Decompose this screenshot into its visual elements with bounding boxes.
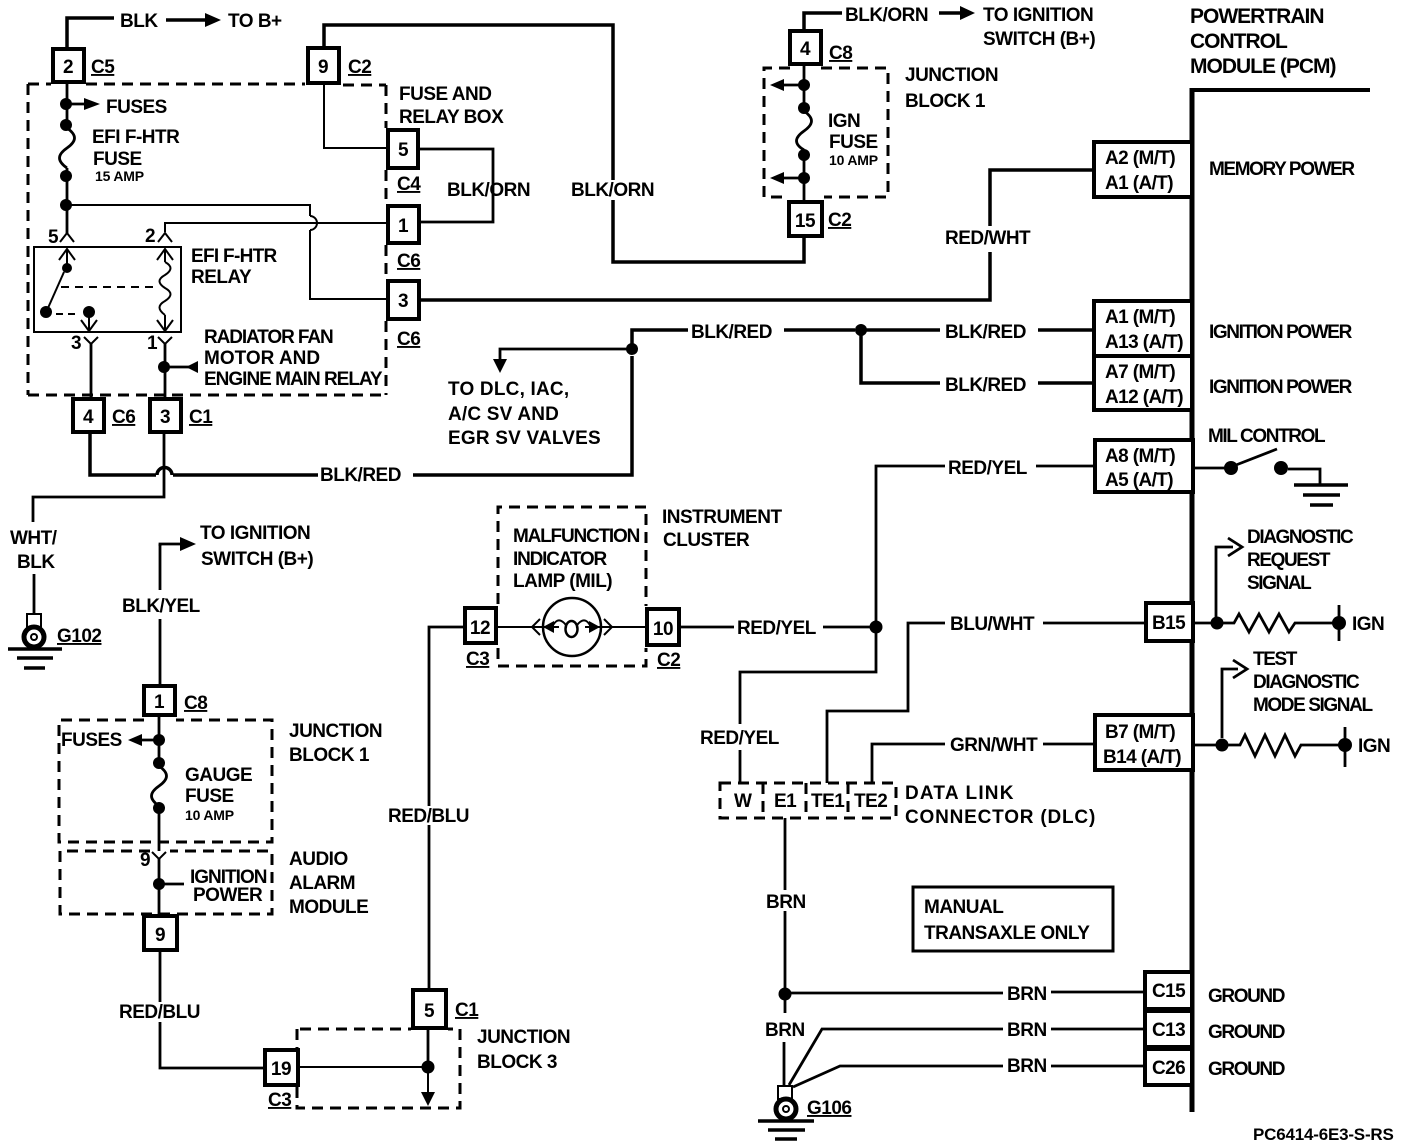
wire BLU/WHT from TE1 to PCM B15	[827, 614, 1146, 783]
svg-text:MODULE: MODULE	[289, 897, 368, 918]
wire BLK/RED to PCM ignition power A7/A12	[861, 330, 1094, 396]
connector 4 (C8)	[790, 31, 852, 64]
svg-text:BLK/RED: BLK/RED	[691, 322, 772, 343]
wire RED/YEL to PCM A8 MIL control	[876, 458, 1095, 627]
wire from fuse junction to connector 3 of fuse/relay box (with hop)	[66, 205, 386, 299]
svg-text:MIL CONTROL: MIL CONTROL	[1208, 426, 1326, 447]
svg-text:IGN: IGN	[1358, 736, 1390, 757]
fuse and relay box (dashed outline)	[28, 84, 504, 395]
svg-text:15: 15	[795, 211, 816, 232]
svg-text:MALFUNCTION: MALFUNCTION	[513, 526, 640, 547]
svg-text:RED/YEL: RED/YEL	[948, 458, 1028, 479]
svg-text:BLOCK 1: BLOCK 1	[289, 745, 370, 766]
svg-text:JUNCTION: JUNCTION	[289, 721, 382, 742]
wire from connector 2 to fuse	[66, 82, 69, 128]
connector 10 (C2)	[647, 609, 680, 671]
fuse: IGN FUSE 10 AMP	[770, 64, 878, 202]
wire BRN from ground to PCM C26	[793, 1056, 1145, 1087]
svg-text:INSTRUMENT: INSTRUMENT	[662, 507, 782, 528]
svg-text:BLK: BLK	[120, 11, 158, 32]
svg-text:DATA LINK: DATA LINK	[905, 783, 1015, 804]
relay pin 3	[71, 333, 98, 398]
svg-text:3: 3	[398, 291, 408, 312]
svg-text:BRN: BRN	[1007, 984, 1047, 1005]
svg-text:G106: G106	[807, 1098, 851, 1119]
svg-text:C15: C15	[1152, 981, 1186, 1002]
svg-text:5: 5	[424, 1001, 435, 1022]
connector 1 (C8)	[144, 686, 207, 715]
svg-text:LAMP (MIL): LAMP (MIL)	[513, 571, 612, 592]
connector 9 (C2)	[308, 48, 371, 83]
svg-text:EGR SV VALVES: EGR SV VALVES	[448, 428, 601, 449]
svg-text:CONTROL: CONTROL	[1190, 30, 1288, 53]
svg-text:1: 1	[154, 692, 165, 713]
svg-text:C8: C8	[184, 693, 207, 714]
svg-text:9: 9	[140, 850, 150, 871]
wire BLK/RED to PCM ignition power A1/A13	[632, 322, 1094, 349]
svg-text:C2: C2	[657, 650, 680, 671]
relay pin 5	[48, 227, 74, 248]
svg-text:G102: G102	[57, 626, 101, 647]
svg-text:BLK/ORN: BLK/ORN	[845, 5, 928, 26]
svg-text:FUSE AND: FUSE AND	[399, 84, 491, 105]
svg-text:A13 (A/T): A13 (A/T)	[1105, 332, 1183, 353]
MIL control switch and ground	[1193, 449, 1348, 505]
svg-text:10: 10	[653, 619, 673, 640]
svg-text:ENGINE MAIN RELAY: ENGINE MAIN RELAY	[204, 369, 383, 390]
svg-text:9: 9	[155, 925, 165, 946]
svg-text:2: 2	[145, 226, 155, 247]
svg-text:GRN/WHT: GRN/WHT	[950, 735, 1038, 756]
svg-text:C5: C5	[91, 57, 115, 78]
svg-text:A2 (M/T): A2 (M/T)	[1105, 148, 1175, 169]
svg-text:IGNITION POWER: IGNITION POWER	[1209, 377, 1353, 398]
PCM module outline	[1190, 5, 1370, 1112]
connector 4 (C6)	[73, 399, 135, 432]
svg-text:IGNITION POWER: IGNITION POWER	[1209, 322, 1353, 343]
relay pin 1	[147, 333, 172, 398]
connector 3 (C1)	[150, 399, 213, 432]
svg-text:SWITCH (B+): SWITCH (B+)	[201, 549, 313, 570]
PCM pin A7(M/T)/A12(A/T) ignition power	[1094, 356, 1353, 410]
svg-text:TO IGNITION: TO IGNITION	[983, 5, 1093, 26]
svg-text:BRN: BRN	[1007, 1020, 1047, 1041]
wire BLK/YEL from ignition switch	[122, 523, 313, 685]
svg-text:INDICATOR: INDICATOR	[513, 549, 607, 570]
svg-text:B15: B15	[1152, 613, 1186, 634]
svg-text:FUSES: FUSES	[106, 97, 167, 118]
wire BLK/ORN from box5 to box1	[419, 149, 530, 222]
connector 9 (audio alarm module)	[144, 916, 177, 950]
PCM pin C13 ground	[1145, 1011, 1285, 1047]
svg-text:B7 (M/T): B7 (M/T)	[1105, 722, 1175, 743]
svg-text:JUNCTION: JUNCTION	[477, 1027, 570, 1048]
svg-text:A12 (A/T): A12 (A/T)	[1105, 387, 1183, 408]
svg-text:A1 (M/T): A1 (M/T)	[1105, 307, 1175, 328]
PCM pin C15 ground	[1145, 972, 1285, 1009]
connector 5 (C4) of fuse/relay box	[388, 130, 421, 195]
connector 2 (C5)	[53, 49, 115, 82]
wire RED/YEL from connector 10	[679, 618, 876, 639]
svg-text:JUNCTION: JUNCTION	[905, 65, 998, 86]
svg-text:1: 1	[398, 216, 409, 237]
svg-text:FUSE: FUSE	[829, 132, 878, 153]
svg-text:C13: C13	[1152, 1020, 1185, 1041]
instrument cluster (dashed outline)	[498, 507, 782, 666]
svg-text:A/C SV AND: A/C SV AND	[448, 404, 559, 425]
PCM pin B7(M/T)/B14(A/T)	[1095, 715, 1193, 770]
svg-text:BLK/RED: BLK/RED	[945, 322, 1026, 343]
svg-text:C2: C2	[828, 210, 851, 231]
note box: manual transaxle only	[913, 887, 1113, 951]
svg-text:E1: E1	[774, 791, 797, 812]
svg-text:PC6414-6E3-S-RS: PC6414-6E3-S-RS	[1253, 1125, 1394, 1144]
fuse F: EFI F-HTR FUSE 15 AMP	[60, 119, 181, 184]
svg-text:FUSES: FUSES	[61, 730, 122, 751]
svg-text:MODULE (PCM): MODULE (PCM)	[1190, 55, 1335, 78]
svg-text:RED/YEL: RED/YEL	[700, 728, 780, 749]
svg-text:C1: C1	[189, 407, 213, 428]
svg-text:C6: C6	[397, 329, 420, 350]
pin 9 of audio alarm module	[140, 850, 267, 916]
svg-text:DIAGNOSTIC: DIAGNOSTIC	[1253, 672, 1360, 693]
diagnostic request signal arrow	[1216, 527, 1354, 617]
wire from relay pin 2 to connector 1 of fuse/relay box	[165, 223, 386, 232]
wire BRN from E1 down	[766, 818, 806, 994]
svg-text:10 AMP: 10 AMP	[829, 152, 878, 168]
svg-text:B14 (A/T): B14 (A/T)	[1103, 747, 1181, 768]
svg-text:TO DLC, IAC,: TO DLC, IAC,	[448, 379, 569, 400]
wire BRN to PCM C15	[785, 984, 1145, 1005]
svg-text:A7 (M/T): A7 (M/T)	[1105, 362, 1175, 383]
svg-text:5: 5	[398, 140, 409, 161]
relay pin 2	[145, 226, 172, 247]
wire RED/YEL to DLC W terminal	[700, 627, 876, 783]
svg-text:9: 9	[318, 57, 328, 78]
connector 3 (C6) of fuse/relay box	[388, 281, 420, 350]
relay U: EFI F-HTR RELAY	[34, 246, 277, 332]
svg-text:C1: C1	[455, 1000, 479, 1021]
test diagnostic mode signal arrow	[1222, 649, 1373, 738]
svg-text:C26: C26	[1152, 1058, 1185, 1079]
resistor to IGN (B15)	[1193, 605, 1384, 641]
DLC (dashed outline)	[720, 783, 1096, 828]
connector 5 (C1)	[413, 990, 479, 1028]
audio alarm module (dashed outline)	[60, 849, 368, 918]
svg-text:MOTOR AND: MOTOR AND	[204, 348, 320, 369]
svg-text:BLK/RED: BLK/RED	[320, 465, 401, 486]
svg-text:BLK/YEL: BLK/YEL	[122, 596, 201, 617]
svg-text:FUSE: FUSE	[185, 786, 234, 807]
svg-text:REQUEST: REQUEST	[1247, 550, 1331, 571]
svg-text:TE1: TE1	[811, 791, 845, 812]
wire GRN/WHT from TE2 to PCM B7	[872, 735, 1095, 783]
wire RED/BLU from connector 9 to connector 19	[119, 950, 263, 1068]
svg-text:TRANSAXLE ONLY: TRANSAXLE ONLY	[924, 923, 1090, 944]
svg-text:GROUND: GROUND	[1208, 1059, 1285, 1080]
svg-text:C3: C3	[268, 1090, 291, 1111]
svg-text:CLUSTER: CLUSTER	[663, 530, 750, 551]
svg-text:4: 4	[83, 407, 94, 428]
svg-text:BLOCK 3: BLOCK 3	[477, 1052, 557, 1073]
svg-text:3: 3	[160, 407, 170, 428]
svg-text:BLOCK 1: BLOCK 1	[905, 91, 986, 112]
svg-text:BRN: BRN	[1007, 1056, 1047, 1077]
svg-text:1: 1	[147, 333, 158, 354]
svg-text:15 AMP: 15 AMP	[95, 168, 144, 184]
PCM pin B15	[1146, 603, 1193, 641]
svg-text:A8 (M/T): A8 (M/T)	[1105, 446, 1175, 467]
svg-text:2: 2	[63, 57, 73, 78]
svg-text:AUDIO: AUDIO	[289, 849, 348, 870]
node: junction to DLC/IAC branch	[448, 343, 638, 449]
svg-text:TEST: TEST	[1253, 649, 1298, 670]
svg-text:MEMORY POWER: MEMORY POWER	[1209, 159, 1355, 180]
connector 1 (C6) of fuse/relay box	[388, 206, 420, 272]
svg-text:C6: C6	[397, 251, 420, 272]
svg-text:19: 19	[271, 1059, 291, 1080]
svg-text:5: 5	[48, 227, 59, 248]
svg-text:W: W	[734, 791, 752, 812]
wire BRN from ground to PCM C13	[789, 1020, 1145, 1085]
svg-text:A5 (A/T): A5 (A/T)	[1105, 470, 1173, 491]
svg-text:C3: C3	[466, 649, 489, 670]
svg-text:SWITCH (B+): SWITCH (B+)	[983, 29, 1095, 50]
svg-text:BLU/WHT: BLU/WHT	[950, 614, 1035, 635]
svg-text:A1 (A/T): A1 (A/T)	[1105, 173, 1173, 194]
svg-text:CONNECTOR (DLC): CONNECTOR (DLC)	[905, 807, 1096, 828]
svg-text:12: 12	[470, 618, 490, 639]
node: junction in block 3 with down arrow	[298, 1028, 435, 1106]
node: RED/YEL junction	[870, 621, 883, 634]
PCM pin A1(M/T)/A13(A/T) ignition power	[1094, 301, 1353, 356]
svg-text:TO B+: TO B+	[228, 11, 282, 32]
node: fuses tap	[60, 97, 167, 118]
svg-text:GROUND: GROUND	[1208, 1022, 1285, 1043]
svg-text:BRN: BRN	[766, 892, 806, 913]
fuse: GAUGE FUSE 10 AMP	[152, 757, 253, 851]
svg-text:DIAGNOSTIC: DIAGNOSTIC	[1247, 527, 1354, 548]
svg-text:EFI F-HTR: EFI F-HTR	[92, 127, 180, 148]
svg-text:POWERTRAIN: POWERTRAIN	[1190, 5, 1324, 28]
svg-text:MODE SIGNAL: MODE SIGNAL	[1253, 695, 1373, 716]
svg-text:RED/BLU: RED/BLU	[119, 1002, 200, 1023]
junction block 1 (dashed outline)	[764, 65, 998, 197]
svg-text:TE2: TE2	[854, 791, 887, 812]
svg-text:RED/YEL: RED/YEL	[737, 618, 817, 639]
junction block 1 lower (dashed outline)	[59, 720, 382, 842]
svg-text:SIGNAL: SIGNAL	[1247, 573, 1312, 594]
connector 19 (C3)	[265, 1050, 298, 1111]
svg-text:C6: C6	[112, 407, 135, 428]
PCM pin C26 ground	[1145, 1049, 1285, 1085]
svg-text:BRN: BRN	[765, 1020, 805, 1041]
svg-text:WHT/: WHT/	[10, 528, 58, 549]
svg-text:MANUAL: MANUAL	[924, 897, 1004, 918]
svg-text:BLK: BLK	[17, 552, 55, 573]
svg-text:3: 3	[71, 333, 81, 354]
svg-text:RADIATOR FAN: RADIATOR FAN	[204, 327, 333, 348]
svg-text:FUSE: FUSE	[93, 149, 142, 170]
svg-text:IGN: IGN	[1352, 614, 1384, 635]
svg-text:10 AMP: 10 AMP	[185, 807, 234, 823]
PCM pin A2(M/T)/A1(A/T) memory power	[1094, 142, 1355, 197]
wire BLK/ORN to ignition switch	[804, 5, 1095, 50]
svg-text:IGN: IGN	[828, 111, 860, 132]
svg-text:BLK/ORN: BLK/ORN	[571, 180, 654, 201]
svg-text:ALARM: ALARM	[289, 873, 355, 894]
node: fuses tap (gauge fuse)	[61, 715, 165, 764]
svg-text:GAUGE: GAUGE	[185, 765, 252, 786]
wire BLK/ORN from connector 9 to junction block connector 15	[324, 25, 804, 262]
svg-text:POWER: POWER	[193, 885, 263, 906]
wire RED/WHT from box3 to PCM memory power	[420, 170, 1094, 300]
node: junction at fuse output	[60, 199, 72, 211]
lamp: malfunction indicator lamp (MIL)	[496, 598, 646, 656]
connector 12 (C3)	[465, 608, 496, 670]
ground G106	[758, 1086, 851, 1139]
svg-text:BLK/ORN: BLK/ORN	[447, 180, 530, 201]
node: radiator fan feed on pin 1	[158, 327, 383, 390]
svg-text:EFI F-HTR: EFI F-HTR	[191, 246, 277, 267]
svg-text:GROUND: GROUND	[1208, 986, 1285, 1007]
svg-text:RED/WHT: RED/WHT	[945, 228, 1031, 249]
wire connector9 to box5	[324, 85, 386, 148]
PCM pin A8(M/T)/A5(A/T) MIL control	[1095, 426, 1326, 492]
svg-text:C4: C4	[397, 174, 421, 195]
svg-text:RELAY: RELAY	[191, 267, 252, 288]
wire BLK/RED from connector 4	[90, 356, 632, 486]
connector 15 (C2)	[789, 202, 851, 236]
svg-text:C8: C8	[829, 43, 852, 64]
svg-text:4: 4	[800, 39, 811, 60]
ground G102	[8, 614, 101, 668]
svg-text:C2: C2	[348, 57, 371, 78]
wire BRN continuing to ground	[765, 994, 805, 1086]
svg-text:TO IGNITION: TO IGNITION	[200, 523, 310, 544]
node: BRN junction	[779, 988, 792, 1001]
resistor to IGN (B7)	[1193, 727, 1390, 767]
junction block 3 (dashed outline)	[297, 1027, 570, 1108]
wire WHT/BLK from connector 3 to ground	[10, 432, 164, 615]
svg-text:BLK/RED: BLK/RED	[945, 375, 1026, 396]
svg-text:RED/BLU: RED/BLU	[388, 806, 469, 827]
svg-text:RELAY BOX: RELAY BOX	[399, 107, 504, 128]
wire RED/BLU from MIL connector 12 down to connector 5	[388, 627, 469, 990]
wire BLK to B+	[67, 11, 282, 47]
